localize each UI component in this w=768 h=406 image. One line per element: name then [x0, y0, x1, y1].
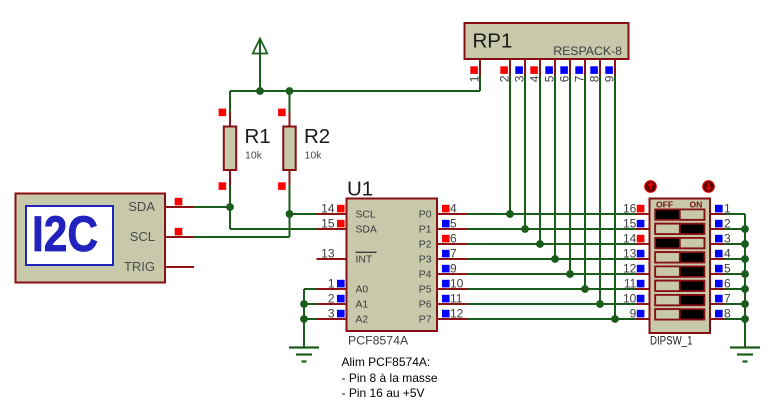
svg-text:RP1: RP1 [473, 30, 513, 53]
svg-text:16: 16 [623, 202, 637, 216]
svg-text:1: 1 [724, 202, 731, 216]
svg-text:14: 14 [321, 202, 335, 216]
svg-text:9: 9 [603, 75, 617, 82]
svg-text:8: 8 [588, 75, 602, 82]
svg-text:11: 11 [624, 277, 637, 291]
svg-text:A2: A2 [356, 315, 369, 326]
svg-text:DIPSW_1: DIPSW_1 [650, 333, 693, 347]
svg-text:12: 12 [450, 307, 464, 321]
svg-text:P5: P5 [419, 285, 432, 296]
svg-text:10k: 10k [245, 150, 263, 162]
svg-text:3: 3 [513, 75, 527, 82]
svg-text:2: 2 [498, 75, 512, 82]
svg-text:4: 4 [450, 202, 457, 216]
svg-text:10: 10 [623, 292, 637, 306]
svg-text:13: 13 [321, 247, 335, 261]
svg-text:6: 6 [724, 277, 731, 291]
svg-text:1: 1 [468, 75, 482, 82]
svg-text:15: 15 [623, 217, 637, 231]
svg-text:4: 4 [528, 75, 542, 82]
svg-text:3: 3 [724, 232, 731, 246]
svg-text:SDA: SDA [356, 225, 377, 236]
svg-text:A0: A0 [356, 285, 369, 296]
svg-text:5: 5 [543, 75, 557, 82]
svg-text:SDA: SDA [128, 199, 155, 214]
svg-text:P3: P3 [419, 255, 432, 266]
svg-text:6: 6 [558, 75, 572, 82]
svg-text:- Pin 16 au +5V: - Pin 16 au +5V [342, 386, 425, 400]
svg-text:2: 2 [328, 292, 335, 306]
svg-text:12: 12 [623, 262, 637, 276]
svg-text:P6: P6 [419, 300, 432, 311]
svg-text:R2: R2 [304, 125, 330, 148]
svg-text:13: 13 [623, 247, 637, 261]
svg-text:P7: P7 [419, 315, 432, 326]
svg-text:OFF: OFF [656, 200, 673, 210]
svg-text:R1: R1 [245, 125, 271, 148]
svg-text:14: 14 [623, 232, 637, 246]
svg-text:11: 11 [450, 292, 463, 306]
svg-text:INT: INT [356, 255, 373, 266]
svg-text:U1: U1 [347, 178, 373, 201]
svg-text:1: 1 [328, 277, 335, 291]
svg-text:PCF8574A: PCF8574A [348, 334, 409, 348]
svg-text:7: 7 [573, 75, 587, 82]
svg-text:A1: A1 [356, 300, 369, 311]
svg-text:9: 9 [630, 307, 637, 321]
svg-text:P0: P0 [419, 210, 432, 221]
svg-text:4: 4 [724, 247, 731, 261]
svg-text:10: 10 [450, 277, 464, 291]
svg-text:SCL: SCL [130, 229, 155, 244]
svg-text:TRIG: TRIG [124, 259, 155, 274]
svg-text:2: 2 [724, 217, 731, 231]
svg-text:5: 5 [450, 217, 457, 231]
svg-text:8: 8 [724, 307, 731, 321]
svg-text:I2C: I2C [32, 205, 98, 262]
svg-text:7: 7 [724, 292, 731, 306]
svg-text:15: 15 [321, 217, 335, 231]
svg-text:ON: ON [690, 200, 703, 210]
svg-text:RESPACK-8: RESPACK-8 [553, 44, 622, 58]
svg-text:7: 7 [450, 247, 457, 261]
svg-text:5: 5 [724, 262, 731, 276]
svg-text:6: 6 [450, 232, 457, 246]
svg-text:9: 9 [450, 262, 457, 276]
svg-text:10k: 10k [305, 150, 323, 162]
svg-text:- Pin 8 à la masse: - Pin 8 à la masse [342, 371, 438, 385]
svg-text:P2: P2 [419, 240, 432, 251]
svg-text:P1: P1 [419, 225, 432, 236]
svg-text:SCL: SCL [356, 210, 376, 221]
svg-text:3: 3 [328, 307, 335, 321]
svg-text:P4: P4 [419, 270, 432, 281]
svg-text:Alim PCF8574A:: Alim PCF8574A: [342, 355, 431, 369]
